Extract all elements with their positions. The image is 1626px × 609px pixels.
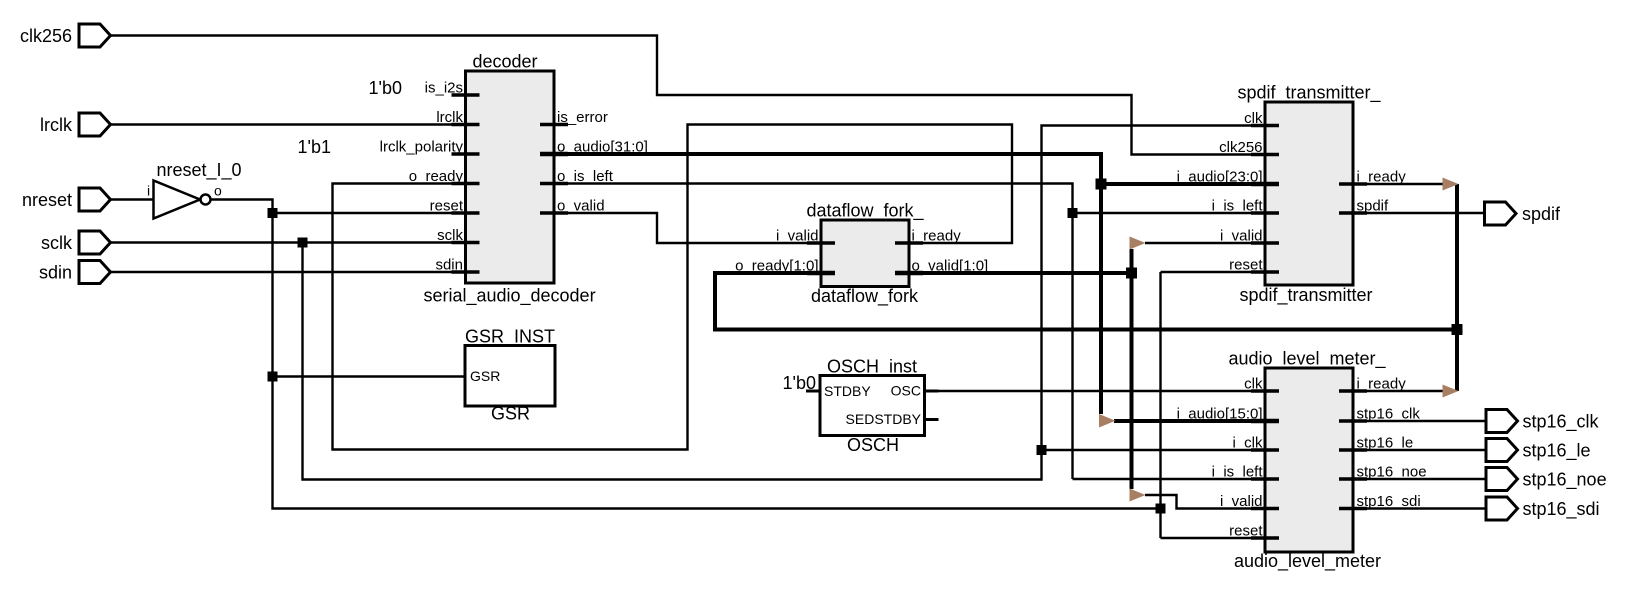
svg-text:stp16_sdi: stp16_sdi [1523, 499, 1600, 520]
dataflow_fork pin labels [735, 228, 988, 275]
svg-text:1'b0: 1'b0 [783, 373, 816, 393]
wire o_is_left net [554, 184, 1073, 480]
wire reset net from inverter output [211, 200, 1161, 509]
wire reset vertical right [1159, 272, 1161, 538]
wire o_is_left to spdif i_is_left [1073, 212, 1266, 214]
svg-text:1'b1: 1'b1 [298, 137, 331, 157]
svg-text:OSC: OSC [891, 383, 921, 399]
junction o_ready bus T [1452, 324, 1463, 335]
junction reset/decoder [268, 208, 278, 218]
svg-text:decoder: decoder [472, 52, 537, 72]
svg-text:lrclk_polarity: lrclk_polarity [380, 139, 464, 156]
svg-text:spdif: spdif [1522, 204, 1561, 224]
bus o_valid vertical [1130, 249, 1134, 489]
svg-text:is_i2s: is_i2s [425, 80, 463, 97]
junction sclk/i_clk branch [1037, 445, 1047, 455]
bus o_ready vertical collector [1455, 184, 1459, 391]
svg-text:stp16_le: stp16_le [1523, 441, 1591, 462]
wire lrclk net [110, 123, 466, 125]
block dataflow_fork_ [806, 201, 924, 308]
bus tap arrow from audio i_ready [1443, 385, 1459, 398]
output port stp16_le [1486, 439, 1591, 462]
dataflow_fork pin stubs [807, 243, 923, 273]
block OSCH_inst [820, 357, 925, 456]
svg-text:sclk: sclk [41, 233, 73, 253]
block U1 decoder (serial_audio_decoder) [423, 52, 595, 307]
wire OSC to audio clk [939, 390, 1266, 392]
input port lrclk [40, 113, 111, 136]
wire sdin net [110, 271, 466, 273]
spdif_transmitter pin labels [1177, 110, 1407, 274]
svg-text:spdif_transmitter_: spdif_transmitter_ [1237, 83, 1381, 104]
svg-text:OSCH: OSCH [847, 435, 899, 455]
junction reset T right [1156, 504, 1166, 514]
junction o_audio bus / i_audio[23:0] [1096, 179, 1107, 190]
inverter nreset_I_0 [147, 160, 242, 219]
wire spdif output [1353, 212, 1485, 214]
bus tap arrow to audio i_audio[15:0] [1099, 414, 1116, 428]
bus tap arrow to audio i_valid [1130, 489, 1146, 502]
svg-text:dataflow_fork_: dataflow_fork_ [806, 201, 924, 222]
bus branch to spdif i_audio[23:0] [1101, 182, 1265, 186]
block spdif_transmitter_ [1237, 83, 1381, 307]
svg-text:serial_audio_decoder: serial_audio_decoder [423, 286, 595, 307]
input port clk256 [20, 24, 111, 47]
wire reset to audio_level_meter reset [1161, 537, 1266, 539]
svg-text:nreset: nreset [22, 190, 72, 210]
wire stp16_noe output [1353, 478, 1486, 480]
svg-text:STDBY: STDBY [824, 383, 871, 399]
svg-text:audio_level_meter: audio_level_meter [1234, 551, 1381, 572]
junction o_valid bus T [1126, 268, 1137, 279]
svg-text:i: i [147, 183, 150, 199]
wire reset to spdif_transmitter reset [1161, 271, 1266, 273]
svg-text:spdif_transmitter: spdif_transmitter [1239, 285, 1372, 306]
svg-text:sdin: sdin [39, 263, 72, 283]
bus o_audio[31:0] [554, 154, 1101, 414]
wire stp16_sdi output [1353, 507, 1486, 509]
audio_level_meter pin labels [1177, 376, 1427, 540]
OSCH stubs [806, 391, 939, 420]
svg-text:stp16_clk: stp16_clk [1523, 412, 1600, 433]
junction reset/GSR [268, 372, 278, 382]
svg-text:audio_level_meter_: audio_level_meter_ [1228, 349, 1386, 370]
junction o_is_left/i_is_left branch [1068, 208, 1078, 218]
decoder pin stubs left [452, 95, 480, 272]
bus tap arrow to spdif i_valid [1130, 237, 1146, 250]
wire o_is_left to audio i_is_left [1073, 478, 1266, 480]
wire nreset to inverter [110, 198, 154, 200]
svg-text:1'b0: 1'b0 [369, 78, 402, 98]
svg-text:SEDSTDBY: SEDSTDBY [846, 411, 922, 427]
svg-text:dataflow_fork: dataflow_fork [811, 286, 919, 307]
wire reset branch to GSR [273, 375, 466, 377]
wire reset branch to decoder reset [273, 212, 466, 214]
wire stp16_le output [1353, 449, 1486, 451]
output port stp16_clk [1486, 410, 1600, 433]
decoder pin labels [380, 80, 648, 274]
wire clk256 net [110, 36, 1265, 155]
svg-text:is_error: is_error [557, 109, 608, 126]
wire stp16_clk output [1353, 420, 1486, 422]
decoder pin stubs right [540, 125, 568, 214]
wire sclk branch to audio_level_meter i_clk [1042, 449, 1266, 451]
bus branch to audio i_audio[15:0] [1114, 419, 1265, 423]
wire audio i_ready to bus [1353, 390, 1444, 392]
bus o_ready[1:0] from dataflow_fork [715, 273, 1457, 330]
wire sclk net [110, 241, 466, 243]
block GSR_INST [465, 327, 555, 424]
bus tap arrow from spdif i_ready [1443, 178, 1459, 191]
svg-text:GSR: GSR [491, 404, 530, 424]
wire spdif i_ready to bus [1353, 183, 1444, 185]
junction sclk branch [298, 238, 308, 248]
svg-text:o: o [214, 183, 222, 199]
input port nreset [22, 188, 111, 211]
input port sclk [41, 231, 111, 254]
svg-text:OSCH_inst: OSCH_inst [827, 357, 917, 378]
output port stp16_sdi [1486, 497, 1600, 520]
svg-text:stp16_noe: stp16_noe [1523, 470, 1607, 491]
input port sdin [39, 261, 111, 284]
wire sclk branch down and across [303, 126, 1266, 480]
svg-text:GSR_INST: GSR_INST [465, 327, 555, 348]
svg-text:nreset_I_0: nreset_I_0 [156, 160, 241, 181]
svg-text:lrclk: lrclk [40, 115, 73, 135]
wire decoder o_valid to dataflow_fork i_valid [554, 213, 821, 243]
spdif_transmitter pin stubs [1251, 126, 1367, 273]
wire o_valid bit to audio i_valid [1145, 495, 1265, 509]
audio_level_meter pin stubs [1251, 391, 1367, 538]
output port stp16_noe [1486, 468, 1607, 491]
svg-text:GSR: GSR [470, 368, 500, 384]
block audio_level_meter_ [1228, 349, 1386, 573]
wire o_ready / dataflow_fork i_ready net [333, 125, 1013, 450]
svg-text:clk256: clk256 [20, 26, 72, 46]
wire o_valid bit to spdif i_valid [1145, 242, 1265, 244]
output port spdif [1485, 202, 1562, 225]
bus o_valid[1:0] from dataflow_fork [909, 271, 1132, 275]
